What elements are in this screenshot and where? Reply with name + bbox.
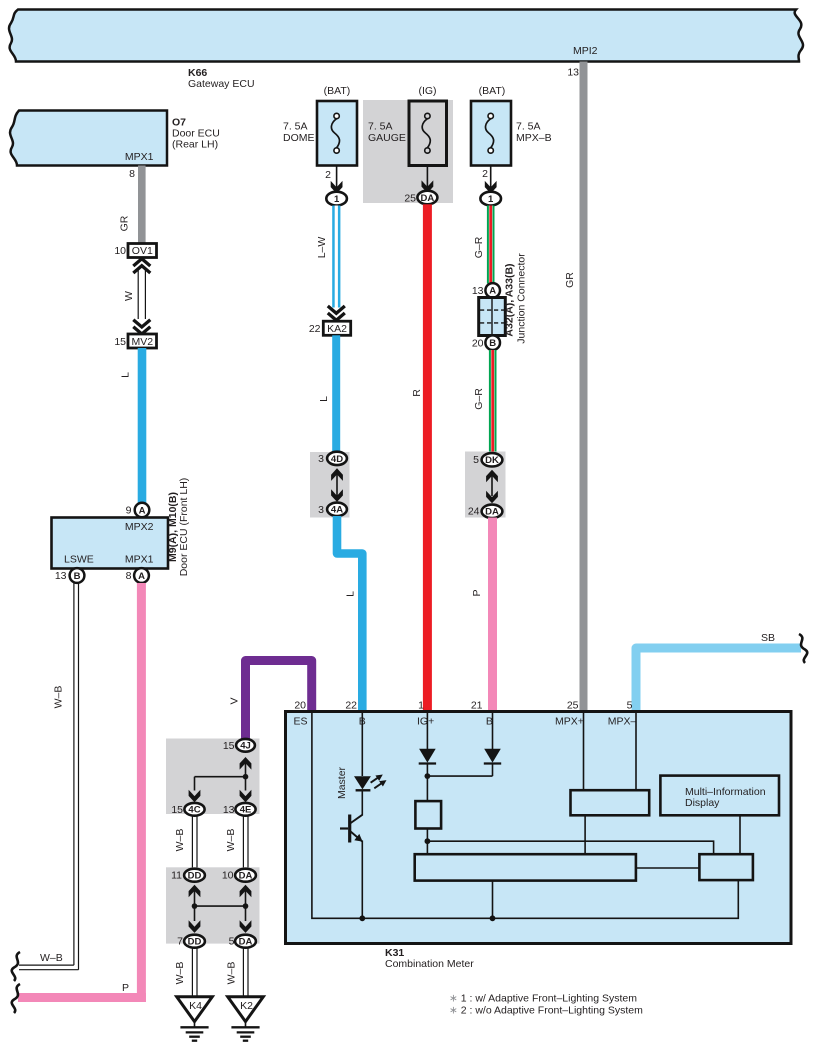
svg-text:13: 13: [55, 570, 67, 582]
svg-text:24: 24: [468, 506, 480, 518]
fuse F DOME 7.5A: [317, 101, 357, 166]
svg-text:P: P: [122, 982, 129, 994]
svg-text:DA: DA: [239, 871, 253, 882]
wire P (DA to meter pin 21): [488, 518, 497, 714]
wire MPX- internal: [635, 713, 637, 790]
svg-text:MPX+: MPX+: [555, 716, 584, 728]
svg-text:(BAT): (BAT): [324, 85, 351, 97]
svg-text:R: R: [411, 389, 423, 397]
svg-text:A: A: [139, 505, 146, 516]
svg-text:MPX1: MPX1: [125, 554, 154, 566]
component box MPX transceiver: [571, 790, 650, 815]
svg-text:∗ 2 : w/o Adaptive Front–Light: ∗ 2 : w/o Adaptive Front–Lighting System: [449, 1005, 643, 1017]
component box2: [699, 854, 753, 880]
svg-text:1: 1: [488, 194, 494, 205]
wire 4J to 4C/4E: [195, 776, 246, 778]
junction block 4J: [166, 739, 260, 815]
svg-text:25: 25: [567, 700, 579, 712]
fuse F MPX-B 7.5A: [471, 101, 511, 166]
svg-text:(IG): (IG): [418, 85, 436, 97]
wire W-B (DA to K2): [242, 948, 244, 997]
svg-text:MPX1: MPX1: [125, 151, 154, 163]
svg-text:20: 20: [472, 338, 484, 350]
svg-text:DA: DA: [239, 937, 253, 948]
wire L (KA2 to 4D): [332, 335, 340, 452]
svg-text:Combination Meter: Combination Meter: [385, 958, 474, 970]
svg-text:MPI2: MPI2: [573, 45, 598, 57]
svg-text:W–B: W–B: [226, 962, 238, 985]
wire to logic box2: [427, 841, 713, 854]
svg-text:B: B: [74, 571, 81, 582]
wire below box S: [426, 829, 428, 855]
svg-text:G–R: G–R: [473, 236, 485, 258]
svg-text:8: 8: [129, 168, 135, 180]
svg-text:Master: Master: [336, 766, 348, 799]
svg-text:2: 2: [325, 169, 331, 181]
svg-text:GAUGE: GAUGE: [368, 132, 406, 144]
svg-text:L: L: [345, 591, 357, 597]
wire V (purple): [246, 661, 312, 740]
wire B internal upper: [361, 713, 363, 776]
junction block DK/DA: [465, 452, 506, 518]
svg-text:OV1: OV1: [132, 245, 153, 257]
wire end squiggle W-B: [12, 952, 20, 981]
svg-text:13: 13: [223, 804, 235, 816]
svg-text:20: 20: [294, 700, 306, 712]
svg-text:8: 8: [126, 570, 132, 582]
wire P from pin 8: [137, 583, 146, 1002]
svg-text:W–B: W–B: [225, 829, 237, 852]
pin 25 DA of GAUGE: [426, 166, 428, 193]
connector chevrons down above KA2: [328, 306, 345, 313]
svg-text:DK: DK: [485, 455, 499, 466]
svg-text:25: 25: [404, 193, 416, 205]
svg-text:7. 5A: 7. 5A: [283, 121, 308, 133]
svg-text:MV2: MV2: [132, 336, 154, 348]
diode D1: [419, 749, 436, 763]
wire end squiggle SB: [799, 634, 807, 663]
connector oval 1 (MPX-B): [480, 192, 501, 206]
fuse F GAUGE 7.5A: [409, 101, 447, 166]
svg-text:LSWE: LSWE: [64, 554, 94, 566]
svg-text:K4: K4: [189, 1000, 202, 1012]
wire G-R upper: [487, 206, 495, 284]
wire transceiver to main board: [584, 815, 586, 854]
svg-text:W–B: W–B: [53, 686, 65, 709]
svg-text:W–B: W–B: [174, 829, 186, 852]
svg-text:W: W: [123, 291, 135, 301]
connector chevrons down: [133, 320, 150, 327]
svg-text:4A: 4A: [331, 505, 343, 516]
svg-text:15: 15: [223, 740, 235, 752]
svg-text:5: 5: [229, 936, 235, 948]
wire R: [423, 204, 432, 713]
svg-text:10: 10: [114, 245, 126, 257]
wire GR (MPI2 bus to meter): [580, 62, 588, 714]
wire SB: [636, 648, 801, 713]
svg-text:7: 7: [177, 936, 183, 948]
wire GR from O7: [138, 166, 146, 244]
connector chevrons up: [133, 259, 150, 266]
svg-text:4J: 4J: [240, 741, 251, 752]
wire joining diodes: [427, 775, 492, 777]
svg-text:A: A: [138, 571, 145, 582]
pin 2 of MPX-B: [490, 166, 492, 193]
svg-text:4E: 4E: [240, 805, 252, 816]
connector oval DA (GAUGE): [417, 191, 437, 205]
wire W-B (4C to DD): [191, 816, 193, 870]
svg-text:13: 13: [472, 285, 484, 297]
svg-text:15: 15: [114, 336, 126, 348]
svg-text:L: L: [318, 396, 330, 402]
svg-text:5: 5: [627, 700, 633, 712]
wire MPX+ internal: [583, 713, 585, 790]
svg-text:10: 10: [222, 870, 234, 882]
wire LED to transistor: [361, 790, 363, 815]
svg-text:Junction Connector: Junction Connector: [516, 253, 528, 344]
svg-text:1: 1: [334, 194, 340, 205]
wire W-B from pin 13: [73, 583, 75, 965]
svg-text:GR: GR: [119, 215, 131, 231]
svg-text:15: 15: [171, 804, 183, 816]
wire IG+ internal: [426, 713, 428, 749]
pin 2 of DOME: [336, 166, 338, 193]
svg-text:V: V: [229, 697, 241, 704]
ground K2: [228, 997, 264, 1022]
svg-text:(BAT): (BAT): [479, 85, 506, 97]
svg-text:1: 1: [418, 700, 424, 712]
wire main board to rail: [492, 881, 494, 919]
ECU M9(A) M10(B) Door ECU (Front LH): [52, 518, 169, 569]
wire MID to box2: [739, 815, 741, 854]
ECU O7 Door ECU (Rear LH): [10, 111, 167, 166]
wire DD/DA link: [194, 891, 196, 921]
svg-text:L: L: [120, 372, 132, 378]
svg-text:DA: DA: [421, 193, 435, 204]
svg-text:4D: 4D: [331, 454, 343, 465]
transistor Q (meter): [348, 815, 351, 843]
wire B(21) internal: [492, 713, 494, 749]
svg-text:DOME: DOME: [283, 132, 315, 144]
svg-text:K2: K2: [240, 1000, 253, 1012]
svg-text:Door ECU (Front LH): Door ECU (Front LH): [178, 478, 190, 577]
svg-text:3: 3: [318, 504, 324, 516]
svg-text:P: P: [471, 589, 483, 596]
diode D2: [484, 749, 501, 763]
svg-text:7. 5A: 7. 5A: [516, 121, 541, 133]
wire ES internal + bottom rail: [312, 713, 738, 918]
wire end squiggle P: [12, 984, 20, 1013]
svg-text:(Rear LH): (Rear LH): [172, 139, 218, 151]
svg-text:5: 5: [473, 454, 479, 466]
gray panel GAUGE: [363, 100, 453, 203]
svg-text:9: 9: [126, 505, 132, 517]
junction block 4D/4A: [310, 452, 350, 518]
svg-text:W–B: W–B: [40, 952, 63, 964]
svg-text:DA: DA: [485, 507, 499, 518]
wire emitter down: [361, 841, 363, 919]
svg-text:3: 3: [318, 453, 324, 465]
svg-text:∗ 1 : w/ Adaptive Front–Lighti: ∗ 1 : w/ Adaptive Front–Lighting System: [449, 993, 637, 1005]
svg-text:11: 11: [171, 870, 182, 882]
ground K4: [177, 997, 213, 1022]
svg-text:21: 21: [471, 700, 483, 712]
connector oval 1 (DOME): [326, 192, 347, 206]
svg-text:IG+: IG+: [417, 716, 434, 728]
svg-text:DD: DD: [188, 937, 202, 948]
svg-text:MPX2: MPX2: [125, 521, 154, 533]
svg-text:2: 2: [482, 168, 488, 180]
svg-text:SB: SB: [761, 632, 775, 644]
wire L-W: [332, 206, 340, 308]
junction block DD/DA: [166, 867, 260, 943]
svg-text:Display: Display: [685, 797, 720, 809]
component long box main board: [415, 854, 636, 880]
svg-text:7. 5A: 7. 5A: [368, 121, 393, 133]
svg-text:A: A: [489, 286, 496, 297]
svg-text:GR: GR: [564, 272, 576, 288]
svg-text:MPX–: MPX–: [608, 716, 637, 728]
wire G-R lower: [489, 350, 497, 452]
wire L: [138, 348, 147, 503]
component box Multi-Information Display: [660, 776, 779, 816]
component box S (regulator): [415, 801, 441, 828]
wire W-B (DD to K4): [191, 948, 193, 997]
junction connector A32(A) A33(B) grid: [479, 298, 506, 336]
svg-text:A32(A), A33(B): A32(A), A33(B): [504, 263, 516, 336]
svg-text:ES: ES: [293, 716, 307, 728]
svg-text:MPX–B: MPX–B: [516, 132, 552, 144]
svg-text:G–R: G–R: [473, 388, 485, 410]
svg-text:DD: DD: [188, 871, 202, 882]
svg-text:KA2: KA2: [327, 323, 347, 335]
svg-text:W–B: W–B: [174, 962, 186, 985]
combination meter K31 box: [286, 712, 792, 944]
bus K66 Gateway ECU: [9, 10, 803, 62]
wire L (4A to meter pin 22): [337, 516, 362, 713]
svg-text:22: 22: [309, 323, 321, 335]
svg-text:L–W: L–W: [316, 237, 328, 259]
wire main board to box2: [636, 867, 700, 869]
svg-text:13: 13: [567, 67, 579, 79]
svg-text:4C: 4C: [188, 805, 200, 816]
svg-text:B: B: [489, 338, 496, 349]
wire W: [137, 270, 139, 319]
svg-text:22: 22: [345, 700, 357, 712]
wire W-B (4E to DA): [242, 816, 244, 870]
svg-text:Gateway ECU: Gateway ECU: [188, 78, 255, 90]
